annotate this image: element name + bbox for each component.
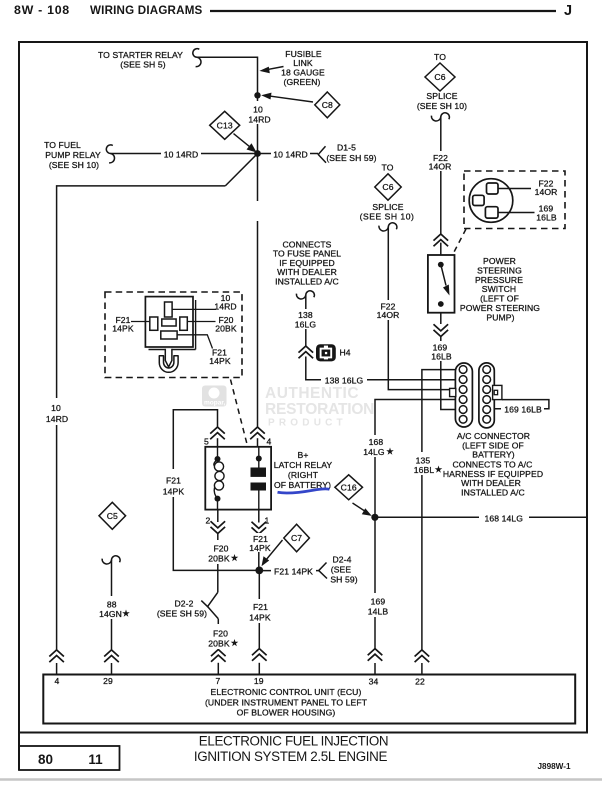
star mark on 168 14LG label xyxy=(386,448,394,455)
connector chevron above pressure switch xyxy=(434,234,449,246)
wire: 169 16LB loop at right A/C connector xyxy=(491,400,549,409)
fork D2-4 xyxy=(319,563,328,579)
wire: branch to D1-5 fork xyxy=(258,153,319,155)
star mark on F20 20BK label upper xyxy=(231,554,239,561)
svg-text:138 16LG: 138 16LG xyxy=(325,375,364,385)
wire break curl to fuel pump relay xyxy=(106,145,114,163)
svg-text:WIRING DIAGRAMS: WIRING DIAGRAMS xyxy=(90,4,203,17)
connector chevron at ECU pin 34 xyxy=(368,649,383,661)
svg-text:WITH DEALER: WITH DEALER xyxy=(461,478,521,488)
wire: junction to D2-4 fork xyxy=(259,570,318,572)
svg-text:H4: H4 xyxy=(340,348,351,358)
svg-text:(SEE SH 10): (SEE SH 10) xyxy=(360,212,415,222)
svg-text:PUMP RELAY: PUMP RELAY xyxy=(45,150,101,160)
svg-text:C8: C8 xyxy=(322,100,333,110)
svg-text:10 14RD: 10 14RD xyxy=(164,150,199,160)
svg-text:C6: C6 xyxy=(382,182,393,192)
wire: switch output 169 16LB to A/C connector xyxy=(440,304,442,324)
svg-text:19: 19 xyxy=(254,676,264,686)
svg-text:16LG: 16LG xyxy=(295,320,317,330)
svg-text:16LB: 16LB xyxy=(536,212,557,222)
svg-text:14PK: 14PK xyxy=(209,356,231,366)
wire break curl to fuse panel xyxy=(296,291,314,299)
svg-text:mopar,: mopar, xyxy=(204,400,226,407)
svg-text:8W - 108: 8W - 108 xyxy=(14,3,70,17)
svg-text:LATCH RELAY: LATCH RELAY xyxy=(274,460,333,470)
svg-text:F21: F21 xyxy=(253,602,268,612)
wire: 168 14LG horizontal run to right border xyxy=(375,516,587,518)
splice diamond C13 xyxy=(210,111,257,152)
svg-text:C7: C7 xyxy=(291,533,302,543)
wire: C6 splice feed F22 14OR down to pressure switch xyxy=(440,117,442,235)
watermark xyxy=(202,385,374,429)
wire: 168 14LG from A/C connector down through C16 junction to ECU pin 34 xyxy=(375,400,456,650)
svg-text:SPLICE: SPLICE xyxy=(372,202,403,212)
left connector tab xyxy=(450,388,456,396)
svg-text:(SEE SH 5): (SEE SH 5) xyxy=(120,60,165,70)
svg-text:OF BLOWER HOUSING): OF BLOWER HOUSING) xyxy=(237,708,336,718)
connector chevron below pressure switch xyxy=(434,324,449,336)
wire: C5 splice 88 14GN down to ECU pin 29 xyxy=(111,560,113,650)
wire break curl to starter relay xyxy=(193,49,201,67)
connector diamond C16 xyxy=(335,475,372,516)
svg-text:SPLICE: SPLICE xyxy=(426,91,457,101)
H4 connector icon xyxy=(316,344,351,361)
node: fusible link junction xyxy=(254,92,260,98)
node: F21 14PK junction xyxy=(255,567,263,575)
svg-text:4: 4 xyxy=(55,676,60,686)
svg-text:C16: C16 xyxy=(341,482,357,492)
header rule xyxy=(210,10,556,12)
svg-text:LINK: LINK xyxy=(293,58,313,68)
svg-text:TO: TO xyxy=(382,163,394,173)
relay contacts xyxy=(258,447,260,468)
wire: relay pin4 chevron into B+ latch relay box xyxy=(257,438,259,447)
svg-text:(SEE SH 10): (SEE SH 10) xyxy=(49,160,99,170)
node: 10 14RD main junction xyxy=(254,150,261,157)
svg-text:STEERING: STEERING xyxy=(477,266,522,276)
svg-text:11: 11 xyxy=(88,752,103,767)
svg-text:J898W-1: J898W-1 xyxy=(537,762,571,771)
svg-text:TO: TO xyxy=(434,52,446,62)
svg-text:10 14RD: 10 14RD xyxy=(273,150,308,160)
svg-text:(SEE SH 59): (SEE SH 59) xyxy=(326,153,376,163)
svg-text:F21 14PK: F21 14PK xyxy=(274,567,313,577)
relay mounting clip xyxy=(165,349,172,367)
star mark on 88 14GN label xyxy=(122,610,130,617)
svg-text:88: 88 xyxy=(107,600,117,610)
svg-text:A/C CONNECTOR: A/C CONNECTOR xyxy=(457,431,530,441)
svg-text:14RD: 14RD xyxy=(248,115,270,125)
wire: F21 14PK loop from relay pin 5 down to junction xyxy=(173,410,259,571)
wire: D2-2 jog break xyxy=(208,592,218,606)
inset leader lines xyxy=(131,309,216,348)
svg-text:(SEE SH 59): (SEE SH 59) xyxy=(157,609,207,619)
connector chevron at relay pin 5 xyxy=(210,427,225,439)
svg-text:C6: C6 xyxy=(434,72,445,82)
svg-text:16BL: 16BL xyxy=(414,465,435,475)
wire: relay pin5 into box xyxy=(217,438,219,447)
svg-text:20BK: 20BK xyxy=(208,639,230,649)
svg-text:2: 2 xyxy=(206,516,211,526)
svg-text:SH 59): SH 59) xyxy=(330,575,357,585)
svg-text:10: 10 xyxy=(51,403,61,413)
svg-text:20BK: 20BK xyxy=(215,324,237,334)
svg-text:14LG: 14LG xyxy=(363,447,385,457)
svg-text:18 GAUGE: 18 GAUGE xyxy=(281,68,325,78)
page header title 8W-108 WIRING DIAGRAMS xyxy=(14,3,572,19)
svg-text:D2-4: D2-4 xyxy=(332,555,351,565)
svg-text:C13: C13 xyxy=(217,120,233,130)
svg-text:PUMP): PUMP) xyxy=(486,313,514,323)
svg-text:(SEE: (SEE xyxy=(331,565,352,575)
svg-text:34: 34 xyxy=(369,677,379,687)
connector chevron at relay pin 2 xyxy=(211,521,226,533)
svg-text:80: 80 xyxy=(38,752,53,767)
svg-text:F20: F20 xyxy=(213,629,228,639)
connector chevron at ECU pin 19 xyxy=(252,649,267,661)
svg-text:RESTORATION: RESTORATION xyxy=(265,401,374,418)
wire: 169 16LB jumper to top pin and 135 16BL drop to ECU pin 22 xyxy=(422,370,456,650)
wire break curl below C6 splice lower xyxy=(379,223,397,231)
connector chevron at ECU pin 7 xyxy=(211,650,226,662)
blue pen underline annotation xyxy=(278,489,330,493)
svg-text:D1-5: D1-5 xyxy=(337,143,356,153)
leader dashed to relay xyxy=(231,380,248,447)
svg-text:169: 169 xyxy=(371,597,386,607)
connector chevron at ECU pin 29 xyxy=(104,650,119,662)
svg-text:SWITCH: SWITCH xyxy=(482,284,517,294)
svg-text:29: 29 xyxy=(103,676,113,686)
relay coil xyxy=(217,447,219,459)
wire: 10 14RD left run down to ECU pin 4 xyxy=(57,186,226,650)
connector chevron at ECU pin 4 xyxy=(49,650,64,662)
svg-text:TO FUEL: TO FUEL xyxy=(44,140,81,150)
svg-text:AUTHENTIC: AUTHENTIC xyxy=(265,385,359,402)
splice diamond C6 lower xyxy=(375,174,401,200)
svg-text:7: 7 xyxy=(216,676,221,686)
svg-text:(UNDER INSTRUMENT PANEL TO LEF: (UNDER INSTRUMENT PANEL TO LEFT xyxy=(205,698,368,708)
connector chevron at ECU pin 22 xyxy=(415,650,430,662)
connector chevron at relay pin 1 xyxy=(251,522,266,534)
svg-text:(GREEN): (GREEN) xyxy=(284,77,321,87)
svg-text:(SEE SH 10): (SEE SH 10) xyxy=(417,101,467,111)
star mark on F20 20BK label lower xyxy=(231,639,239,646)
svg-text:14OR: 14OR xyxy=(377,310,400,320)
wire break curl below C5 splice xyxy=(102,556,120,564)
splice diamond C5 xyxy=(99,502,126,529)
svg-text:4: 4 xyxy=(267,437,272,447)
svg-text:14GN: 14GN xyxy=(99,609,122,619)
svg-text:INSTALLED A/C: INSTALLED A/C xyxy=(275,276,339,286)
svg-text:F20: F20 xyxy=(213,544,228,554)
splice diamond C8 xyxy=(261,92,340,118)
relay terminal pins xyxy=(150,302,188,339)
wire: diagonal from junction to left drop xyxy=(225,154,257,186)
fork D1-5 xyxy=(318,146,326,163)
svg-text:POWER: POWER xyxy=(483,256,516,266)
wire break curl below C6 splice upper xyxy=(431,113,449,121)
right connector tab xyxy=(493,385,502,399)
arrow fusible link callout xyxy=(259,67,283,74)
connector diamond C7 xyxy=(262,524,310,566)
svg-text:J: J xyxy=(564,3,572,19)
svg-text:14PK: 14PK xyxy=(249,613,271,623)
svg-text:ELECTRONIC FUEL INJECTION: ELECTRONIC FUEL INJECTION xyxy=(199,734,388,749)
svg-text:20BK: 20BK xyxy=(208,554,230,564)
svg-text:14PK: 14PK xyxy=(112,324,134,334)
svg-text:INSTALLED A/C: INSTALLED A/C xyxy=(461,488,525,498)
svg-text:F21: F21 xyxy=(166,476,181,486)
svg-text:138: 138 xyxy=(298,310,313,320)
wire: 138 16LG from fuse panel curl down and right to A/C connector xyxy=(305,295,307,346)
svg-text:169 16LB: 169 16LB xyxy=(504,405,542,415)
svg-text:16LB: 16LB xyxy=(431,352,452,362)
svg-text:IGNITION SYSTEM 2.5L ENGINE: IGNITION SYSTEM 2.5L ENGINE xyxy=(194,749,388,764)
svg-text:BATTERY): BATTERY) xyxy=(472,450,515,460)
svg-text:D2-2: D2-2 xyxy=(174,599,193,609)
svg-text:PRODUCT: PRODUCT xyxy=(268,418,347,429)
svg-text:14PK: 14PK xyxy=(163,487,185,497)
svg-text:POWER STEERING: POWER STEERING xyxy=(460,303,540,313)
svg-text:168: 168 xyxy=(369,437,384,447)
svg-text:B+: B+ xyxy=(298,450,309,460)
svg-text:TO STARTER RELAY: TO STARTER RELAY xyxy=(98,50,183,60)
svg-text:14RD: 14RD xyxy=(214,302,236,312)
wire: relay pin 1 F21 14PK down to junction and ECU pin 19 xyxy=(258,510,260,523)
connector chevron at relay pin 4 xyxy=(250,427,265,439)
svg-text:22: 22 xyxy=(415,677,425,687)
svg-text:5: 5 xyxy=(204,437,209,447)
svg-text:135: 135 xyxy=(416,456,431,466)
wire: F22 14OR from second C6 splice to A/C connector xyxy=(388,227,455,390)
wire: relay pin 2 F20 20BK down xyxy=(217,510,219,522)
wire: starter relay feed to junction, down to relay pin 4 xyxy=(197,57,258,427)
svg-text:C5: C5 xyxy=(107,511,118,521)
svg-text:CONNECTS TO A/C: CONNECTS TO A/C xyxy=(453,460,533,470)
star mark on 135 16BL label xyxy=(435,466,443,473)
connector chevron on 138 16LG wire at H4 xyxy=(299,346,314,358)
relay connector cavity box xyxy=(145,297,193,347)
svg-text:ELECTRONIC CONTROL UNIT (ECU): ELECTRONIC CONTROL UNIT (ECU) xyxy=(211,687,362,697)
svg-text:14LB: 14LB xyxy=(368,607,389,617)
node: C16 junction 168 14LG xyxy=(371,514,378,521)
svg-text:1: 1 xyxy=(265,516,270,526)
wire: fuel pump relay branch 10 14RD xyxy=(111,153,258,155)
svg-text:14OR: 14OR xyxy=(535,187,558,197)
svg-text:10: 10 xyxy=(253,105,263,115)
svg-text:168 14LG: 168 14LG xyxy=(485,514,524,524)
svg-text:(RIGHT: (RIGHT xyxy=(288,470,319,480)
svg-text:14PK: 14PK xyxy=(249,543,271,553)
svg-text:14OR: 14OR xyxy=(429,162,452,172)
svg-text:14RD: 14RD xyxy=(46,414,68,424)
splice diamond C6 top xyxy=(425,63,455,91)
